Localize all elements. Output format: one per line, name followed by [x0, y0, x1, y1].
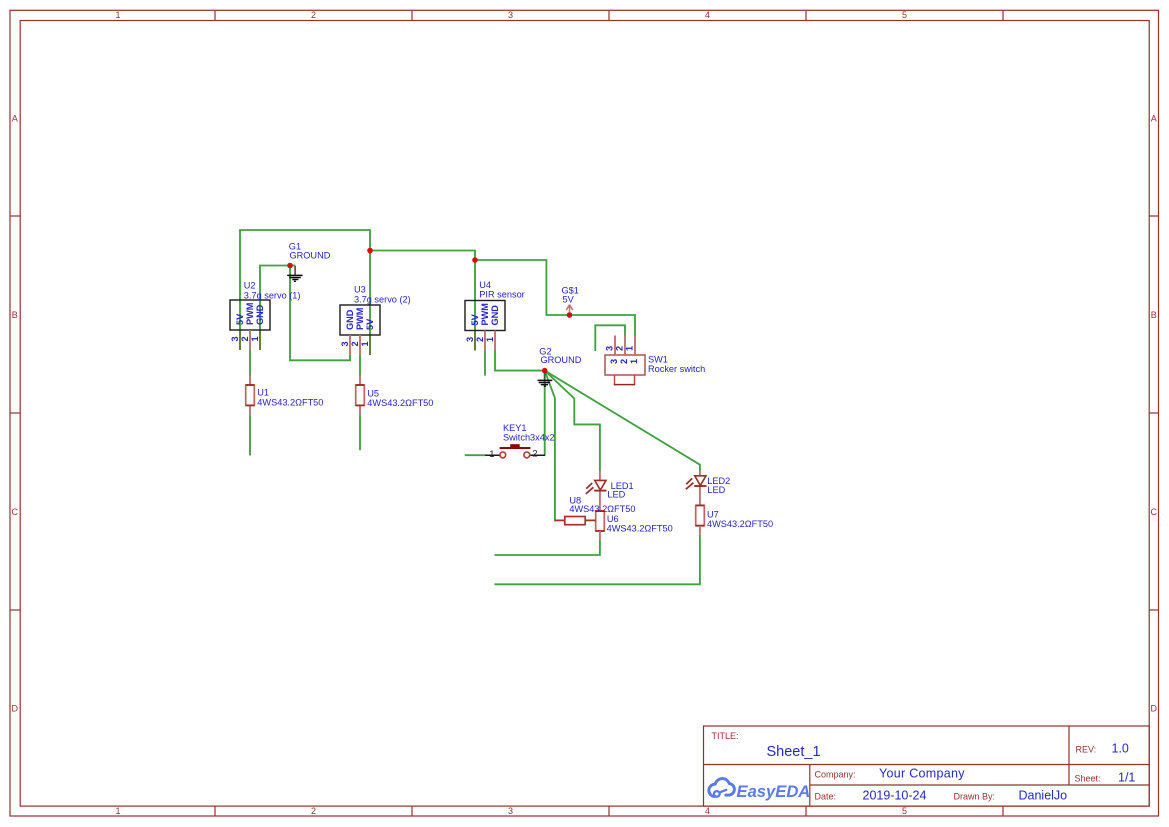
- svg-text:4WS43.2ΩFT50: 4WS43.2ΩFT50: [569, 504, 635, 514]
- svg-text:Switch3x4x2: Switch3x4x2: [503, 433, 555, 443]
- svg-text:1: 1: [115, 806, 120, 816]
- title block: [704, 726, 1150, 806]
- svg-text:DanielJo: DanielJo: [1019, 788, 1068, 802]
- svg-text:Rocker switch: Rocker switch: [648, 364, 705, 374]
- svg-text:4WS43.2ΩFT50: 4WS43.2ΩFT50: [367, 398, 433, 408]
- svg-text:SW1: SW1: [648, 354, 668, 364]
- wire: SW1 pin2 stub: [595, 325, 625, 351]
- svg-text:B: B: [1151, 310, 1157, 320]
- svg-text:A: A: [12, 114, 18, 124]
- component U2 3.7g servo (1): [230, 280, 300, 350]
- junction node B: [472, 257, 478, 263]
- svg-text:D: D: [1151, 703, 1158, 713]
- svg-text:2: 2: [619, 359, 629, 364]
- svg-text:5V: 5V: [470, 313, 480, 325]
- wire: G2 to KEY1 pin2: [544, 371, 546, 456]
- junction node A: [367, 248, 373, 254]
- svg-text:U4: U4: [479, 280, 491, 290]
- junction node G2: [542, 368, 548, 374]
- svg-text:PWM: PWM: [355, 307, 365, 330]
- svg-text:3: 3: [508, 806, 513, 816]
- svg-text:3: 3: [230, 336, 240, 341]
- svg-text:Date:: Date:: [815, 791, 837, 801]
- svg-text:TITLE:: TITLE:: [712, 731, 739, 741]
- svg-text:Company:: Company:: [815, 769, 856, 779]
- svg-text:U5: U5: [367, 388, 379, 398]
- svg-text:Drawn By:: Drawn By:: [954, 791, 996, 801]
- wire: G2 to LED1 anode: [545, 371, 600, 472]
- svg-text:GROUND: GROUND: [290, 251, 331, 261]
- svg-text:2019-10-24: 2019-10-24: [863, 788, 927, 802]
- svg-text:4WS43.2ΩFT50: 4WS43.2ΩFT50: [257, 397, 323, 407]
- wire: U6 bottom rail: [495, 540, 600, 555]
- wire: U7 bottom rail: [495, 535, 700, 585]
- svg-text:4: 4: [705, 10, 710, 20]
- svg-text:5V: 5V: [365, 318, 375, 330]
- wire: U4 PWM pin2 stub: [484, 351, 486, 376]
- svg-text:1: 1: [624, 346, 634, 351]
- junction node G1: [287, 263, 293, 269]
- LED LED2: [686, 472, 730, 506]
- svg-text:Your Company: Your Company: [879, 766, 965, 780]
- svg-text:GND: GND: [255, 304, 265, 325]
- svg-text:GROUND: GROUND: [541, 355, 582, 365]
- wire: G1 stub to ground symbol: [290, 265, 295, 267]
- svg-text:LED: LED: [707, 485, 725, 495]
- junction node G$1: [567, 312, 573, 318]
- wire: U2 PWM pin2 to resistor U1 and stub: [249, 350, 251, 456]
- wire: 5V rail junction A to U4 pin3: [370, 251, 475, 351]
- svg-text:EasyEDA: EasyEDA: [737, 782, 811, 801]
- svg-text:REV:: REV:: [1076, 745, 1097, 755]
- svg-text:1: 1: [629, 359, 639, 364]
- svg-text:2: 2: [532, 449, 537, 460]
- svg-text:Sheet:: Sheet:: [1075, 773, 1101, 783]
- svg-text:1: 1: [485, 337, 495, 342]
- svg-text:1/1: 1/1: [1118, 770, 1135, 784]
- wire: 5V rail junction B to G$1 and SW1 pin1: [475, 260, 635, 336]
- wire: U3 PWM pin2 to resistor U5 and stub: [359, 355, 361, 450]
- svg-text:5V: 5V: [235, 313, 245, 325]
- wire: KEY1 pin1 stub: [465, 454, 486, 456]
- svg-text:4WS43.2ΩFT50: 4WS43.2ΩFT50: [707, 519, 773, 529]
- svg-text:U1: U1: [257, 388, 269, 398]
- component KEY1 Switch3x4x2: [485, 423, 554, 460]
- svg-text:4: 4: [705, 806, 710, 816]
- wire: G1 to U3 GND pin3: [290, 266, 350, 361]
- svg-text:4WS43.2ΩFT50: 4WS43.2ΩFT50: [607, 524, 673, 534]
- svg-text:1: 1: [360, 341, 370, 346]
- svg-text:3.7g servo (1): 3.7g servo (1): [244, 290, 301, 300]
- svg-text:LED: LED: [607, 489, 625, 499]
- svg-text:5: 5: [902, 10, 907, 20]
- resistor U5: [356, 376, 434, 416]
- svg-text:1: 1: [250, 336, 260, 341]
- svg-text:3: 3: [604, 346, 614, 351]
- svg-text:GND: GND: [345, 309, 355, 330]
- svg-text:1: 1: [489, 449, 494, 460]
- svg-text:1.0: 1.0: [1112, 742, 1129, 756]
- svg-text:2: 2: [240, 336, 250, 341]
- svg-text:KEY1: KEY1: [503, 423, 527, 433]
- svg-text:1: 1: [115, 10, 120, 20]
- svg-text:GND: GND: [490, 305, 500, 326]
- resistor U1: [246, 376, 324, 416]
- svg-text:2: 2: [614, 346, 624, 351]
- wire: 5V rail U2 pin3 to U3 pin1: [240, 230, 370, 355]
- svg-text:3: 3: [340, 341, 350, 346]
- svg-text:U2: U2: [244, 280, 256, 290]
- EasyEDA logo: [709, 779, 810, 802]
- power symbol G$1 5V: [562, 285, 579, 315]
- svg-text:PWM: PWM: [245, 302, 255, 325]
- svg-text:3: 3: [508, 10, 513, 20]
- wire: G2 to resistor U8: [545, 371, 558, 521]
- wire: U4 GND pin1 to G2: [495, 351, 545, 371]
- svg-text:Sheet_1: Sheet_1: [767, 744, 821, 760]
- svg-text:U3: U3: [354, 284, 366, 294]
- LED LED1: [586, 472, 634, 511]
- svg-text:3.7g servo (2): 3.7g servo (2): [354, 294, 411, 304]
- svg-text:B: B: [12, 310, 18, 320]
- ground G1: [287, 242, 330, 282]
- svg-text:2: 2: [311, 10, 316, 20]
- svg-text:C: C: [12, 507, 19, 517]
- resistor U6: [596, 511, 673, 540]
- component U3 3.7g servo (2): [340, 284, 411, 355]
- svg-text:2: 2: [311, 806, 316, 816]
- svg-text:3: 3: [465, 337, 475, 342]
- svg-text:5V: 5V: [563, 295, 575, 305]
- svg-text:5: 5: [902, 806, 907, 816]
- component U4 PIR sensor: [465, 280, 525, 351]
- svg-text:3: 3: [609, 359, 619, 364]
- svg-text:D: D: [12, 703, 19, 713]
- component SW1 Rocker switch: [604, 336, 705, 385]
- svg-text:C: C: [1151, 507, 1158, 517]
- resistor U8: [555, 495, 636, 524]
- svg-text:2: 2: [475, 337, 485, 342]
- svg-text:A: A: [1151, 114, 1157, 124]
- resistor U7: [696, 505, 773, 534]
- svg-text:PWM: PWM: [480, 303, 490, 326]
- svg-text:U7: U7: [707, 510, 719, 520]
- wire: G2 to LED2 anode: [545, 371, 700, 472]
- ground G2: [538, 347, 582, 387]
- svg-text:PIR sensor: PIR sensor: [479, 289, 524, 299]
- svg-text:2: 2: [350, 341, 360, 346]
- svg-text:U6: U6: [607, 514, 619, 524]
- wire: U2 GND pin1 to G1: [260, 266, 290, 351]
